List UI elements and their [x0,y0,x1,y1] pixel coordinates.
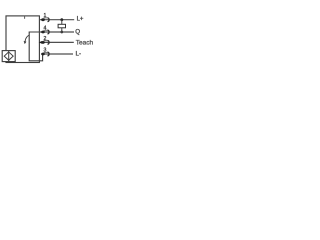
svg-text:L+: L+ [77,17,84,23]
svg-text:L-: L- [76,50,82,57]
pin 4 contact dot [41,31,45,34]
teach input arrowhead [39,41,43,44]
wire pin4 Q [39,31,74,33]
wire pin2 Teach [43,41,74,43]
pin 3 contact dot [41,53,45,56]
load resistor [58,24,65,28]
pin 3 socket arc [48,52,50,56]
svg-text:1: 1 [44,13,47,19]
sensor body outline [6,16,39,63]
load resistor vertical wire top [61,20,63,25]
svg-text:Teach: Teach [76,39,94,46]
teach adjustment arrow [25,35,29,41]
pin 1 socket arc [48,18,50,22]
junction node on L+ [60,18,63,21]
proximity sensor symbol box [2,51,15,62]
pin 2 contact dot [41,41,45,44]
pin 2 socket arc [48,40,50,44]
divider stub on top edge [24,16,26,19]
pin 4 socket arc [48,30,50,34]
svg-text:Q: Q [75,28,80,35]
pin 1 contact dot [41,18,45,21]
internal output switch path (Q to L-) [29,32,42,61]
load resistor vertical wire bottom [61,28,63,32]
vertical line through diamond [8,51,10,62]
sensor diamond [4,52,13,60]
junction node on Q [60,31,63,34]
wire pin3 L- [43,53,73,55]
wire pin1 L+ [39,19,74,21]
